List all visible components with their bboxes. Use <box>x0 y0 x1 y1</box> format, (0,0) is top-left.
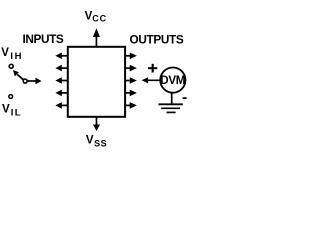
svg-text:IH: IH <box>10 51 23 62</box>
svg-text:DVM: DVM <box>160 74 185 87</box>
svg-text:SS: SS <box>94 139 107 149</box>
svg-text:V: V <box>2 103 10 115</box>
svg-text:CC: CC <box>92 13 107 23</box>
svg-text:OUTPUTS: OUTPUTS <box>130 32 184 46</box>
svg-text:V: V <box>1 47 9 59</box>
svg-text:V: V <box>86 135 94 147</box>
svg-text:IL: IL <box>11 108 22 119</box>
svg-text:INPUTS: INPUTS <box>23 32 64 46</box>
